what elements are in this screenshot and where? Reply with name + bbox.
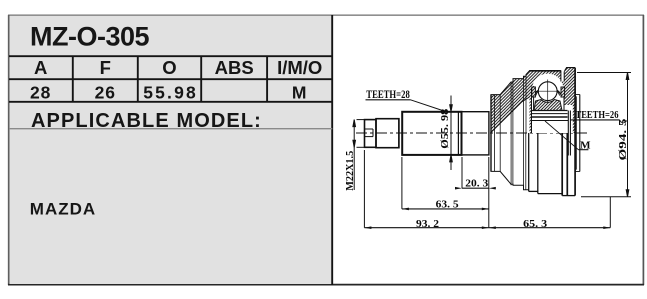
svg-text:93. 2: 93. 2	[416, 218, 440, 230]
thread stub	[365, 120, 377, 148]
dim d94.5	[577, 73, 631, 197]
outer race block hatched (upper)	[530, 71, 576, 133]
line under applicable model row	[9, 128, 332, 130]
svg-text:F: F	[100, 57, 111, 78]
spline cylinder d55.98	[399, 112, 462, 155]
cage end rects	[532, 87, 536, 97]
svg-text:26: 26	[95, 83, 116, 103]
svg-text:MZ-O-305: MZ-O-305	[30, 21, 150, 51]
snap ring groove	[561, 70, 564, 82]
svg-text:M22X1.5: M22X1.5	[345, 151, 356, 191]
spline bore lines	[532, 111, 568, 121]
svg-text:O: O	[162, 57, 176, 78]
dim d55.98	[450, 96, 453, 171]
svg-text:TEETH=28: TEETH=28	[366, 87, 410, 101]
svg-text:APPLICABLE MODEL:: APPLICABLE MODEL:	[31, 110, 262, 132]
label TEETH=28	[366, 87, 448, 112]
svg-text:65. 3: 65. 3	[523, 218, 548, 230]
dim M22X1.5	[353, 120, 364, 190]
table grid lines	[9, 15, 332, 285]
svg-text:TEETH=26: TEETH=26	[576, 109, 619, 121]
inner race hatched	[534, 100, 562, 111]
dim 65.3	[489, 218, 611, 230]
svg-text:A: A	[34, 57, 47, 78]
label M	[545, 121, 591, 151]
extension lines bottom	[364, 150, 610, 228]
boot cone hatched section (upper)	[491, 71, 530, 133]
dim 63.5	[402, 198, 489, 210]
cage arcs	[533, 87, 562, 98]
outer race lower external view	[529, 133, 575, 196]
cavity (white)	[532, 74, 573, 133]
ball	[536, 80, 559, 103]
svg-text:ABS: ABS	[215, 57, 254, 78]
svg-text:28: 28	[30, 83, 51, 103]
plain cylinder 20.3	[462, 112, 489, 155]
svg-text:55.98: 55.98	[143, 83, 198, 103]
svg-text:20. 3: 20. 3	[465, 178, 489, 190]
svg-text:63. 5: 63. 5	[436, 198, 460, 210]
svg-text:I/M/O: I/M/O	[277, 57, 322, 78]
right face ring	[575, 95, 580, 172]
header row	[34, 57, 322, 78]
boot cone outline (upper)	[491, 71, 530, 133]
boot cone external view (lower)	[491, 133, 529, 190]
bore opening edges	[568, 111, 570, 156]
centerline	[356, 132, 588, 134]
svg-text:Ø94. 5: Ø94. 5	[618, 119, 629, 161]
dim 93.2	[364, 218, 488, 230]
dim 20.3	[455, 178, 496, 190]
svg-text:M: M	[292, 83, 308, 103]
gray table panel	[10, 16, 333, 284]
shaft neck	[376, 119, 399, 148]
svg-text:Ø55. 98: Ø55. 98	[440, 109, 451, 149]
data row	[30, 83, 308, 103]
label TEETH=26	[570, 109, 628, 123]
svg-text:MAZDA: MAZDA	[30, 200, 96, 219]
